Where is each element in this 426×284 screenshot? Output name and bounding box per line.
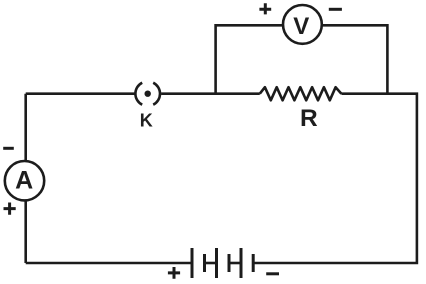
svg-text:R: R [300, 105, 318, 132]
svg-text:V: V [293, 13, 309, 40]
svg-text:A: A [15, 167, 33, 195]
svg-text:K: K [140, 110, 153, 130]
